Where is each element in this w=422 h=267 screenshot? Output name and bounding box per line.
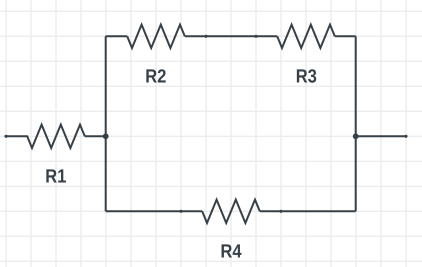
wire: bottom-left to R4: [106, 210, 203, 212]
wire: R1 to left node: [85, 135, 106, 137]
wire: right node to right lead end: [356, 135, 406, 137]
resistor R3: [277, 25, 335, 48]
wire: R4 to bottom-right corner: [260, 210, 356, 212]
label R2: [146, 69, 165, 82]
terminal dot R4 left: [179, 210, 182, 213]
label R3: [297, 69, 316, 82]
label R1: [46, 169, 66, 182]
terminal dot R4 right: [279, 210, 282, 213]
wire: R2 to R3: [185, 35, 277, 37]
terminal dot R2 right: [204, 35, 207, 38]
node A (left junction): [103, 133, 109, 139]
terminal dot right lead end: [404, 135, 407, 138]
wire: right vertical branch: [355, 36, 357, 211]
wire: R3 to top-right corner: [335, 35, 356, 37]
resistor R2: [127, 25, 185, 48]
wire: left lead into R1: [6, 135, 27, 137]
wire: left vertical branch: [105, 36, 107, 211]
label R4: [222, 244, 242, 257]
wire: top-left to R2: [106, 35, 128, 37]
node B (right junction): [353, 133, 359, 139]
terminal dot R1 left: [4, 135, 7, 138]
resistor R1: [27, 125, 85, 148]
terminal dot R3 left: [254, 35, 257, 38]
resistor R4: [202, 200, 260, 223]
